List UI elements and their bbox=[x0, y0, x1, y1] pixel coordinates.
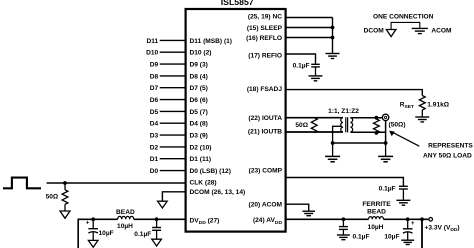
capacitor C 0.1uF right bbox=[339, 219, 370, 240]
wire NC/SLEEP/REFLO bus down bbox=[332, 18, 334, 54]
svg-text:10µF: 10µF bbox=[99, 230, 114, 237]
svg-text:BEAD: BEAD bbox=[116, 209, 135, 216]
svg-text:D10: D10 bbox=[146, 50, 158, 57]
svg-text:(23) COMP: (23) COMP bbox=[249, 167, 283, 174]
svg-text:0.1µF: 0.1µF bbox=[134, 231, 151, 238]
node 10uF junction right bbox=[406, 217, 410, 221]
svg-text:(15) SLEEP: (15) SLEEP bbox=[247, 25, 283, 32]
wire D6 bbox=[160, 99, 186, 101]
resistor 50 ohm load bbox=[374, 119, 380, 133]
svg-text:50Ω: 50Ω bbox=[46, 194, 59, 201]
capacitor C 10uF polarized right bbox=[384, 219, 415, 240]
primary winding bbox=[341, 118, 343, 132]
svg-text:(20) ACOM: (20) ACOM bbox=[249, 202, 283, 209]
svg-text:(16) REFLO: (16) REFLO bbox=[246, 35, 282, 42]
node load resistor bottom bbox=[375, 131, 379, 135]
wire supply down bbox=[421, 219, 423, 248]
node 10uF junction left bbox=[91, 217, 95, 221]
wire primary center tap bbox=[333, 126, 342, 143]
capacitor C 0.1uF left bbox=[134, 219, 161, 239]
svg-text:D4: D4 bbox=[150, 121, 159, 128]
svg-text:D9: D9 bbox=[150, 61, 159, 68]
secondary winding bbox=[350, 118, 352, 132]
ground DCOM-style bbox=[158, 201, 168, 208]
node CLK junction bbox=[63, 181, 67, 185]
node SLEEP junction bbox=[331, 26, 335, 30]
wire D4 bbox=[160, 122, 186, 124]
svg-text:D0: D0 bbox=[150, 168, 159, 175]
svg-text:10µH: 10µH bbox=[117, 223, 133, 230]
svg-text:D8: D8 bbox=[150, 73, 159, 80]
ground ACOM-style below RSET bbox=[415, 117, 429, 122]
inductor FERRITE BEAD 10uH right bbox=[362, 201, 391, 231]
wire COMP bbox=[286, 178, 404, 187]
wire IOUTB bbox=[286, 131, 343, 133]
node center tap ground junction bbox=[331, 141, 335, 145]
ground DCOM-style below left 0.1uF bbox=[152, 239, 162, 246]
svg-text:CLK (28): CLK (28) bbox=[190, 180, 217, 187]
wire SLEEP bbox=[286, 27, 333, 29]
svg-text:D1 (11): D1 (11) bbox=[190, 156, 212, 163]
svg-text:D2 (10): D2 (10) bbox=[190, 144, 212, 151]
connector BNC output bbox=[382, 114, 405, 128]
svg-text:D5 (7): D5 (7) bbox=[190, 109, 208, 116]
svg-text:D0 (LSB) (12): D0 (LSB) (12) bbox=[190, 168, 231, 175]
svg-text:50Ω: 50Ω bbox=[295, 122, 308, 129]
wire D3 bbox=[160, 134, 186, 136]
wire D10 bbox=[160, 51, 186, 53]
svg-text:ACOM: ACOM bbox=[431, 28, 452, 35]
legend ONE CONNECTION bbox=[364, 14, 452, 37]
svg-text:D7: D7 bbox=[150, 85, 159, 92]
ground ACOM-style below right 0.1uF bbox=[337, 235, 350, 240]
transformer T1 1:1 Z1:Z2 bbox=[328, 108, 359, 132]
svg-text:ONE CONNECTION: ONE CONNECTION bbox=[373, 14, 434, 21]
svg-text:+: + bbox=[86, 221, 90, 227]
wire D9 bbox=[160, 63, 186, 65]
clock source square wave symbol bbox=[3, 178, 41, 189]
wire ACOM bbox=[286, 204, 309, 211]
ground ACOM-style below REFIO cap bbox=[309, 76, 323, 81]
svg-text:(24) AVDD: (24) AVDD bbox=[253, 217, 283, 226]
ground ACOM-style below SLEEP bus bbox=[326, 54, 340, 59]
svg-text:D9 (3): D9 (3) bbox=[190, 61, 208, 68]
svg-text:REPRESENTS: REPRESENTS bbox=[428, 142, 473, 149]
wire D11 bbox=[160, 39, 186, 41]
svg-text:D5: D5 bbox=[150, 109, 159, 116]
ground ACOM-style below COMP cap bbox=[396, 200, 410, 205]
svg-text:0.1µF: 0.1µF bbox=[353, 234, 370, 241]
svg-text:D8 (4): D8 (4) bbox=[190, 73, 208, 80]
ground ACOM-style below right 10uF bbox=[401, 240, 414, 244]
svg-text:(50Ω): (50Ω) bbox=[389, 121, 406, 128]
ground ACOM-style at ACOM pin bbox=[302, 211, 315, 216]
svg-text:D2: D2 bbox=[150, 144, 159, 151]
svg-text:D11 (MSB) (1): D11 (MSB) (1) bbox=[190, 38, 233, 45]
svg-text:+: + bbox=[411, 221, 415, 227]
ground ACOM-style legend bbox=[412, 27, 428, 29]
wire D1 bbox=[160, 158, 186, 160]
svg-text:D7 (5): D7 (5) bbox=[190, 85, 208, 92]
node supply rail down junction bbox=[420, 217, 424, 221]
svg-text:(25, 19) NC: (25, 19) NC bbox=[248, 14, 282, 21]
svg-text:FERRITE: FERRITE bbox=[362, 201, 391, 208]
wire DCOM bbox=[162, 192, 186, 201]
wire secondary bottom bbox=[350, 131, 385, 133]
capacitor C 0.1uF COMP bbox=[379, 186, 408, 200]
wire secondary top to load bbox=[350, 117, 382, 119]
node +3.3V terminal bbox=[429, 218, 433, 222]
resistor RSET 1.91k bbox=[400, 96, 450, 117]
node load resistor top bbox=[375, 116, 379, 120]
wire D5 bbox=[160, 110, 186, 112]
svg-text:10µH: 10µH bbox=[368, 224, 384, 231]
op-amp U1 : ISL5857 DAC IC body bbox=[186, 0, 286, 232]
svg-text:ISL5857: ISL5857 bbox=[221, 0, 254, 7]
wire D8 bbox=[160, 75, 186, 77]
svg-text:0.1µF: 0.1µF bbox=[293, 63, 310, 70]
wire REFLO bbox=[286, 37, 333, 39]
wire BNC down to ground rail bbox=[385, 121, 387, 143]
svg-text:D6 (6): D6 (6) bbox=[190, 97, 208, 104]
node BNC ground junction bbox=[384, 141, 388, 145]
resistor 50 ohm across outputs bbox=[295, 118, 317, 133]
svg-text:(17) REFIO: (17) REFIO bbox=[248, 52, 282, 59]
wire D0 bbox=[160, 170, 186, 172]
svg-text:D11: D11 bbox=[146, 38, 158, 45]
inductor BEAD 10uH left bbox=[116, 209, 135, 230]
wire NC bbox=[286, 17, 333, 19]
wire DVDD rail bbox=[134, 218, 186, 220]
annotation arrow 50 ohm load bbox=[389, 131, 473, 160]
wire IOUTA bbox=[286, 117, 343, 119]
svg-text:RSET: RSET bbox=[400, 101, 414, 110]
node 0.1uF junction right bbox=[342, 217, 346, 221]
capacitor C 10uF polarized left bbox=[86, 219, 114, 240]
wire CLK bbox=[47, 182, 186, 184]
wire AVDD rail bbox=[286, 218, 369, 220]
svg-text:1:1, Z1:Z2: 1:1, Z1:Z2 bbox=[328, 108, 359, 115]
svg-text:BEAD: BEAD bbox=[367, 209, 386, 216]
node REFLO junction bbox=[331, 36, 335, 40]
ground DCOM-style legend bbox=[386, 30, 396, 37]
ground DCOM-style below CLK resistor bbox=[60, 211, 70, 218]
svg-text:1.91kΩ: 1.91kΩ bbox=[427, 101, 450, 108]
wire FSADJ bbox=[286, 90, 423, 96]
wire D2 bbox=[160, 146, 186, 148]
resistor 50 ohm CLK termination bbox=[46, 183, 68, 211]
ground ACOM-style below center tap bbox=[325, 143, 340, 162]
svg-text:(21) IOUTB: (21) IOUTB bbox=[248, 129, 282, 136]
wire D7 bbox=[160, 87, 186, 89]
wire REFIO bbox=[286, 54, 316, 64]
svg-text:ANY 50Ω LOAD: ANY 50Ω LOAD bbox=[423, 152, 472, 159]
svg-text:DCOM: DCOM bbox=[364, 28, 385, 35]
node 0.1uF junction left bbox=[155, 217, 159, 221]
svg-text:D3 (9): D3 (9) bbox=[190, 132, 208, 139]
core bbox=[345, 117, 347, 132]
ground ACOM-style below BNC bbox=[378, 143, 393, 162]
svg-text:0.1µF: 0.1µF bbox=[379, 186, 396, 193]
svg-text:D10 (2): D10 (2) bbox=[190, 50, 212, 57]
ground DCOM-style below left 10uF bbox=[88, 240, 98, 247]
wire legend bracket bbox=[391, 22, 420, 29]
svg-text:+3.3V (VDD): +3.3V (VDD) bbox=[425, 224, 460, 233]
svg-text:10µF: 10µF bbox=[384, 234, 399, 241]
svg-text:D1: D1 bbox=[150, 156, 159, 163]
svg-text:D4 (8): D4 (8) bbox=[190, 121, 208, 128]
svg-text:D6: D6 bbox=[150, 97, 159, 104]
svg-text:DVDD (27): DVDD (27) bbox=[190, 217, 220, 226]
svg-text:DCOM (26, 13, 14): DCOM (26, 13, 14) bbox=[190, 189, 246, 196]
svg-text:(18) FSADJ: (18) FSADJ bbox=[247, 86, 283, 93]
svg-text:D3: D3 bbox=[150, 132, 159, 139]
svg-text:(22) IOUTA: (22) IOUTA bbox=[248, 115, 282, 122]
capacitor C 0.1uF REFIO bbox=[293, 63, 320, 76]
wire transformer ground rail bbox=[333, 142, 386, 144]
